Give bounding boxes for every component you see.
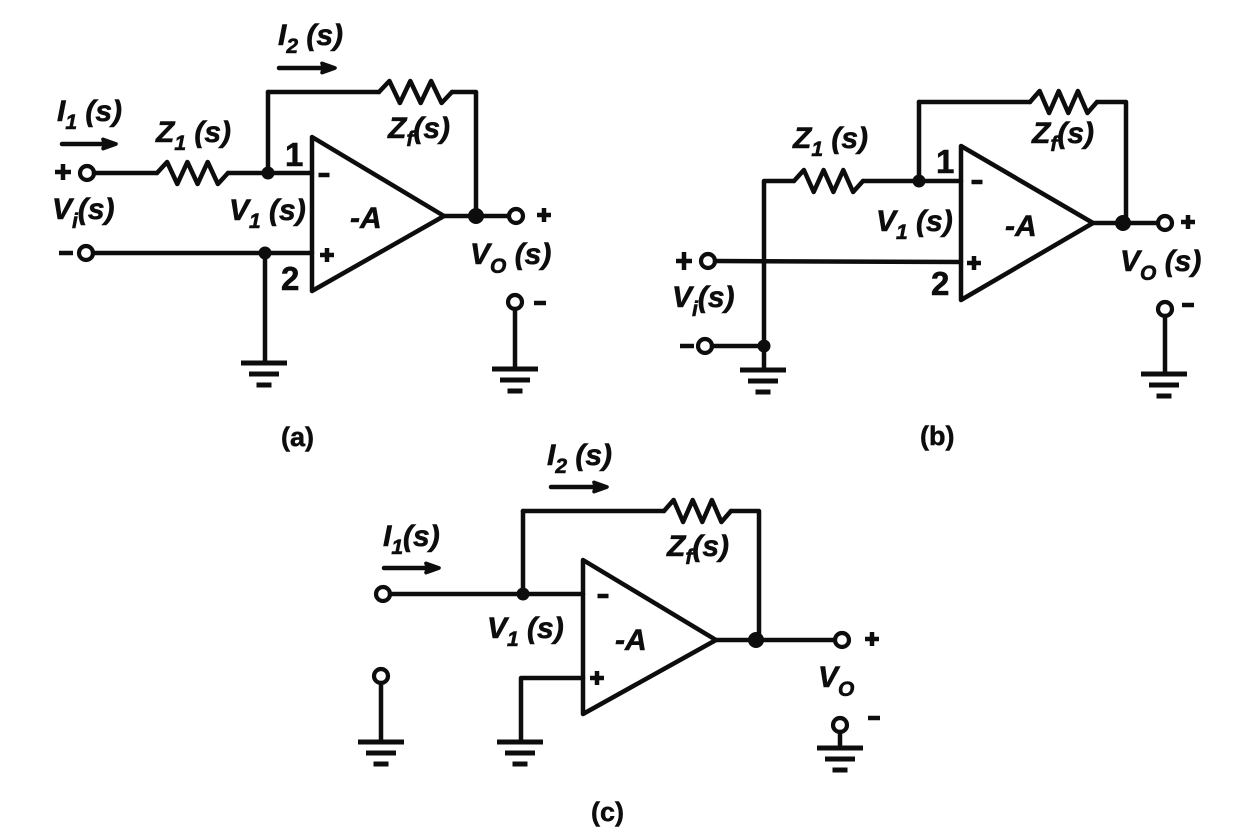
plus sign output a [537,208,551,222]
circuit (b): inverting op-amp, grounded input variant [672,91,1201,451]
svg-text:(a): (a) [281,422,314,452]
wire lower input to op-amp a [93,251,312,256]
output node dot c [748,632,764,648]
svg-text:(c): (c) [591,797,624,827]
wire junction to ground b [762,346,767,368]
op-amp U1 c [583,560,716,714]
wire node up to feedback c [521,511,526,594]
terminal input- a [79,246,93,260]
wire noninverting input to ground c [521,678,583,740]
terminal input c [376,587,390,601]
wire feedback right down to output b [1097,102,1126,223]
ground a output [492,369,538,391]
wire feedback right down to output c [731,511,759,640]
ground c output [817,748,863,770]
wire feedback top left segment a [268,90,379,95]
resistor Z1 b [794,170,863,192]
node 1 junction dot a [262,167,275,180]
wire input+ to op-amp noninverting b [715,261,961,262]
arrow I1(s) c [384,563,439,572]
node 1 junction dot b [913,175,926,188]
ground a lower input [241,363,287,385]
terminal output+ b [1158,216,1172,230]
svg-text:1: 1 [285,136,303,173]
wire node1 up to feedback [266,92,271,173]
minus sign inverting input b [972,180,983,185]
minus sign output b [1182,303,1194,308]
terminal output+ a [509,209,523,223]
arrow I2(s) a [279,63,335,72]
plus sign output c [865,632,879,646]
svg-text:-A: -A [615,624,647,657]
wire input to Z1 [94,171,157,176]
wire op-amp output c [716,638,835,643]
terminal output- c [833,718,847,732]
resistor Zf b [1030,91,1097,113]
wire input- to junction b [712,344,764,349]
svg-text:-A: -A [1005,210,1037,243]
arrow I2(s) c [551,482,607,491]
output node dot b [1115,215,1131,231]
resistor Zf a [379,81,452,103]
plus sign input terminal b [676,252,692,270]
plus sign noninverting input b [967,256,981,270]
node 2 junction dot a [259,247,272,260]
op-amp U1 a [312,137,444,291]
resistor Zf c [664,500,731,522]
wire output- to ground a [513,309,518,367]
circuit (c): simplified inverting op-amp with feedback impedance [358,439,880,827]
wire input to op-amp inverting c [390,592,583,597]
minus sign output c [868,716,880,721]
terminal output- b [1158,302,1172,316]
wire feedback right down to output a [452,92,476,216]
svg-text:1: 1 [936,143,954,180]
node V1 junction dot c [517,588,530,601]
wire feedback top left segment b [919,100,1030,105]
ground c noninverting [497,742,543,764]
wire Z1 to op-amp inverting b [863,179,961,184]
terminal reference c [374,669,388,683]
wire op-amp output a [444,214,509,219]
terminal input+ b [701,254,715,268]
plus sign noninverting input c [590,671,604,685]
wire node2 down to ground a [263,253,268,363]
terminal output- a [508,295,522,309]
terminal input- b [698,339,712,353]
circuit (a): inverting op-amp with input and feedback impedances [52,19,551,452]
ground b input [740,370,786,392]
op-amp U1 b [961,146,1093,300]
resistor Z1 a [157,162,228,184]
wire junction up to Z1 b [764,181,794,346]
svg-text:-A: -A [350,202,382,235]
plus sign output b [1181,215,1195,229]
output node dot a [468,208,484,224]
wire Z1 to op-amp inverting input [228,171,312,176]
minus sign input terminal b [680,344,694,349]
plus sign noninverting input a [320,248,334,262]
wire reference terminal to ground c [379,683,384,740]
ground c reference [358,742,404,764]
minus sign output a [534,301,546,306]
minus sign inverting input a [319,173,330,178]
svg-text:2: 2 [281,260,299,297]
wire op-amp output b [1093,221,1158,226]
wire node1 up to feedback b [917,102,922,181]
ground b output [1141,374,1187,396]
wire feedback top left segment c [523,509,664,514]
plus sign input terminal a [55,164,71,180]
minus sign input terminal a [59,251,73,256]
arrow I1(s) [62,139,116,148]
svg-text:(b): (b) [920,421,954,451]
terminal output+ c [835,633,849,647]
wire output- to ground b [1163,316,1168,372]
minus sign inverting input c [598,594,609,599]
wire output- to ground c [838,732,843,746]
terminal input+ a [80,166,94,180]
junction dot input- b [758,340,771,353]
svg-text:2: 2 [931,265,949,302]
